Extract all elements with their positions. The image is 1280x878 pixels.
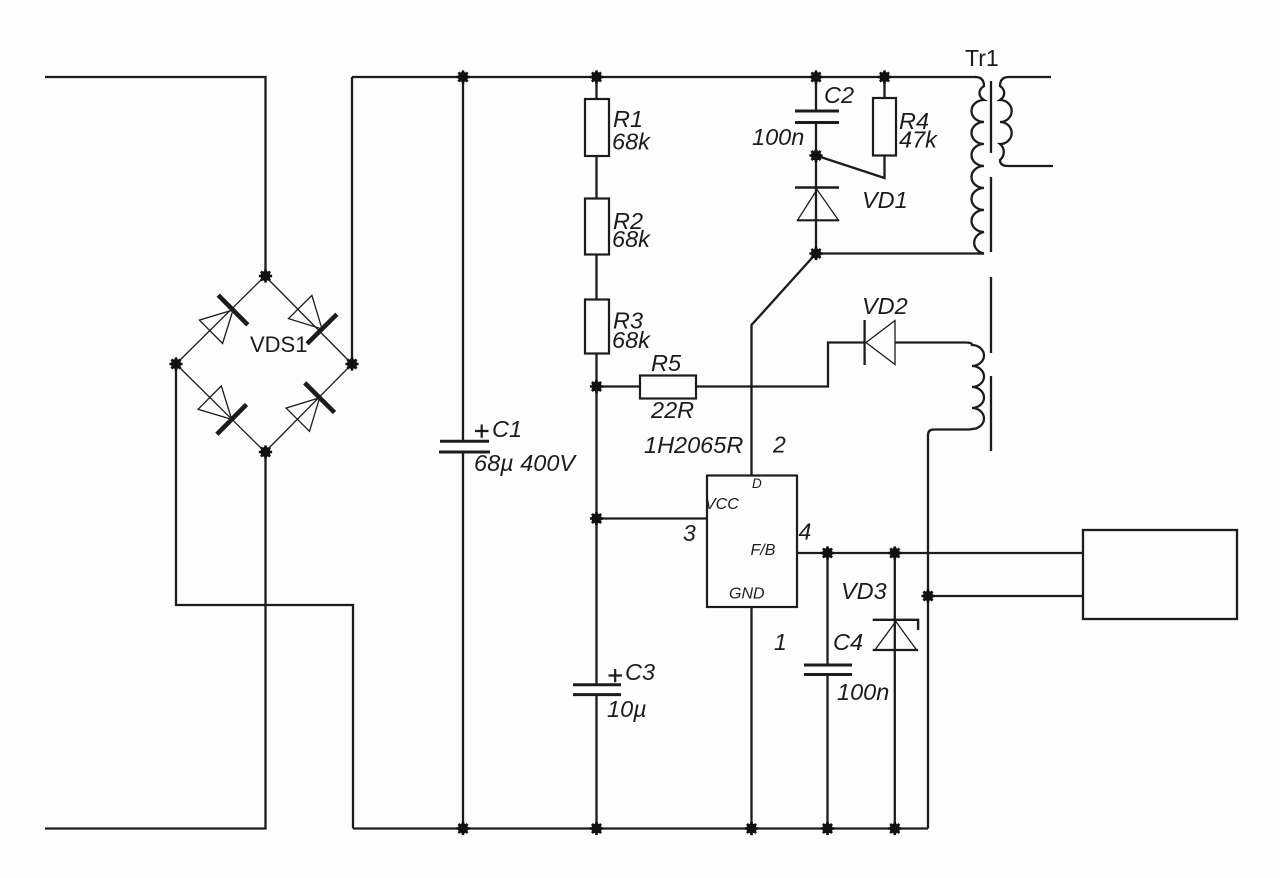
- svg-text:VD2: VD2: [862, 293, 908, 319]
- svg-text:100n: 100n: [837, 679, 889, 705]
- svg-text:10µ: 10µ: [607, 696, 647, 722]
- junction dot output lower branch: [921, 589, 934, 602]
- junction dot F/B C4: [821, 546, 834, 559]
- junction dot bottom rail C3: [590, 822, 603, 835]
- junction dot bottom rail C4: [821, 822, 834, 835]
- wire bridge right node up to top rail: [351, 77, 353, 364]
- diode VDS1 bridge edge top-left: [176, 276, 265, 364]
- wire pin 1 GND: [750, 607, 752, 829]
- resistor R5: [597, 385, 641, 387]
- capacitor C2 lead bottom: [815, 124, 817, 156]
- svg-text:C1: C1: [492, 416, 522, 442]
- svg-text:VD1: VD1: [862, 187, 908, 213]
- junction dot top rail C1: [456, 70, 469, 83]
- wire bottom rail: [353, 827, 928, 829]
- svg-text:1: 1: [774, 629, 787, 655]
- wire R4 bottom lead diagonal to C2 node: [816, 156, 885, 179]
- wire pin 3 VCC: [597, 517, 708, 519]
- junction dot VD1 anode: [809, 247, 822, 260]
- resistor R2: [595, 156, 597, 199]
- transformer Tr1 primary winding: [972, 77, 985, 254]
- capacitor C3 lead bottom: [595, 696, 597, 829]
- svg-text:VD3: VD3: [841, 578, 887, 604]
- capacitor C3 plates: [573, 683, 621, 686]
- junction dot bridge bottom: [259, 445, 272, 458]
- wire output upper from junction to box: [928, 595, 1083, 597]
- diode VD2: [863, 320, 865, 365]
- svg-text:C3: C3: [625, 659, 655, 685]
- svg-text:100n: 100n: [752, 124, 804, 150]
- svg-text:47k: 47k: [899, 127, 938, 153]
- resistor R3: [595, 255, 597, 300]
- wire node to VCC junction and capacitor C3: [595, 387, 597, 685]
- wire AC input top-left: [45, 77, 266, 276]
- junction dot bridge top: [259, 269, 272, 282]
- resistor R1: [595, 77, 597, 99]
- diode VD3 zener: [894, 553, 896, 829]
- junction dot top rail R1: [590, 70, 603, 83]
- junction dot bridge left: [169, 357, 182, 370]
- wire VD1 node to primary winding bottom: [816, 252, 984, 254]
- wire AC input bottom-left: [45, 452, 266, 829]
- diode VD1: [815, 156, 817, 254]
- svg-text:4: 4: [799, 519, 812, 545]
- svg-text:C4: C4: [833, 629, 863, 655]
- capacitor C2 plates: [795, 110, 839, 113]
- capacitor C1 plates: [440, 440, 489, 443]
- diode VDS1 bridge edge top-right: [265, 276, 352, 364]
- wire pin 2 D to VD1 node: [752, 254, 817, 476]
- capacitor C1 plus sign: [475, 425, 489, 438]
- svg-text:68k: 68k: [612, 327, 651, 353]
- capacitor C1 lead top: [462, 77, 464, 440]
- capacitor C4 plates: [804, 664, 852, 667]
- svg-text:22R: 22R: [650, 397, 694, 423]
- wire R3 to node: [595, 354, 597, 387]
- svg-text:R5: R5: [651, 350, 682, 376]
- IC U1 1H2065R body: [707, 476, 797, 608]
- svg-text:F/B: F/B: [751, 542, 776, 559]
- svg-text:VDS1: VDS1: [250, 332, 307, 357]
- junction dot bottom rail VD3: [888, 822, 901, 835]
- junction dot top rail R4: [878, 70, 891, 83]
- svg-text:GND: GND: [729, 586, 765, 603]
- svg-text:3: 3: [683, 520, 696, 546]
- svg-text:Tr1: Tr1: [965, 45, 999, 71]
- wire pin 4 F/B: [797, 552, 1083, 554]
- diode VDS1 bridge edge bottom-left: [176, 364, 265, 452]
- transformer Tr1 secondary 2 winding: [928, 343, 984, 436]
- junction dot C2 VD1: [809, 149, 822, 162]
- junction dot bridge right: [345, 357, 358, 370]
- wire R5 right lead up to VD2: [696, 343, 864, 387]
- svg-text:68k: 68k: [612, 129, 651, 155]
- svg-text:1H2065R: 1H2065R: [644, 432, 743, 458]
- capacitor C3 plus sign: [609, 669, 623, 682]
- svg-text:2: 2: [772, 432, 786, 458]
- wire top rail: [352, 76, 976, 78]
- resistor R4: [883, 77, 885, 98]
- svg-text:C2: C2: [824, 82, 854, 108]
- capacitor C2 lead top: [815, 77, 817, 110]
- capacitor C4 lead bottom: [826, 676, 828, 829]
- capacitor C1 lead bottom: [462, 453, 464, 829]
- svg-text:VCC: VCC: [705, 496, 739, 513]
- transformer Tr1 secondary 1 winding: [1000, 77, 1053, 166]
- capacitor C4 lead top: [826, 553, 828, 664]
- junction dot R3 R5: [590, 380, 603, 393]
- junction dot top rail C2: [809, 70, 822, 83]
- junction dot bottom rail C1: [456, 822, 469, 835]
- svg-text:D: D: [752, 476, 762, 491]
- svg-text:68µ 400V: 68µ 400V: [474, 450, 577, 476]
- junction dot VCC pin 3: [590, 512, 603, 525]
- junction dot bottom rail GND: [745, 822, 758, 835]
- diode VDS1 bridge edge bottom-right: [265, 364, 352, 452]
- junction dot F/B VD3: [888, 546, 901, 559]
- wire secondary 2 return down to bottom rail: [927, 435, 929, 829]
- transformer Tr1 core: [990, 81, 992, 451]
- wire bridge left node down to bottom rail: [176, 364, 353, 829]
- output box: [1083, 530, 1237, 619]
- svg-text:68k: 68k: [612, 226, 651, 252]
